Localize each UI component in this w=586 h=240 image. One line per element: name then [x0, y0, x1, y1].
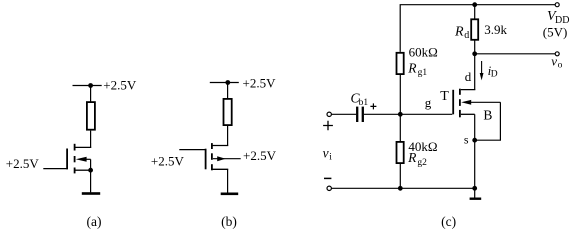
wire: VDD top rail (c) [400, 5, 555, 52]
current arrow iD [481, 61, 483, 74]
node: supply junction (b) [225, 80, 230, 85]
wire: resistor to drain (a) [90, 131, 92, 148]
wire: body loop to source node B [475, 102, 501, 140]
wire: input to capacitor [331, 113, 356, 115]
wire: source to ground (b) [227, 169, 229, 192]
svg-text:+2.5V: +2.5V [243, 75, 277, 90]
transistor T body arrow [461, 100, 471, 105]
wire: drain node to transistor [474, 54, 476, 90]
svg-text:(a): (a) [87, 214, 102, 229]
resistor Rd [471, 19, 478, 40]
svg-text:g: g [425, 95, 432, 110]
transistor (a) NMOS drain stub [75, 146, 90, 149]
resistor (a) drain resistor [87, 102, 95, 130]
transistor T source stub [461, 113, 475, 115]
resistor Rg2 [397, 142, 404, 163]
node: source ground junction [472, 186, 477, 191]
terminal input - [327, 186, 331, 190]
svg-text:i: i [329, 152, 332, 162]
svg-text:d: d [465, 69, 472, 84]
transistor (b) body arrow [213, 158, 241, 160]
wire: Rg2 to bottom rail [399, 163, 401, 188]
svg-text:R: R [454, 25, 464, 40]
wire: Rg1 to gate node to Rg2 [399, 75, 401, 142]
wire: Rd to drain node [474, 40, 476, 54]
svg-text:T: T [440, 89, 449, 104]
wire: source to bottom rail [474, 114, 476, 188]
wire: resistor to drain (b) [227, 126, 229, 146]
node: Rg2 bottom junction [398, 186, 403, 191]
node: supply junction (a) [88, 83, 93, 88]
svg-text:v: v [551, 53, 557, 68]
transistor (b) source stub [212, 168, 228, 171]
ground (c) [470, 198, 482, 200]
node: drain output junction [472, 51, 477, 56]
svg-text:B: B [483, 107, 492, 122]
terminal input + [327, 112, 331, 116]
wire: body to source (a) [90, 159, 92, 170]
wire: gate lead (b) [179, 149, 205, 151]
node: body-source junction [472, 138, 477, 143]
wire: capacitor to gate [364, 113, 452, 115]
transistor (a) gate bar [66, 149, 68, 170]
ground (a) [82, 192, 100, 195]
wire: rail to Rd [474, 5, 476, 19]
ground (b) [221, 193, 239, 196]
svg-text:+2.5V: +2.5V [243, 148, 277, 163]
transistor T drain stub [461, 89, 475, 92]
svg-text:d: d [464, 30, 469, 41]
svg-text:(c): (c) [441, 214, 456, 229]
label - input [324, 177, 331, 179]
svg-text:g1: g1 [418, 68, 428, 78]
label + input [323, 121, 333, 131]
wire: top rail (a) [73, 85, 102, 87]
wire: bottom rail (c) [331, 187, 474, 189]
svg-text:(5V): (5V) [543, 25, 568, 40]
transistor (a) source stub [75, 169, 90, 171]
transistor (b) channel bar [211, 143, 213, 170]
resistor (b) drain resistor [224, 99, 232, 125]
transistor T channel bar [459, 89, 461, 118]
node: top rail junction at Rd [472, 2, 477, 7]
svg-text:3.9k: 3.9k [484, 22, 507, 37]
node: source junction (a) [88, 168, 93, 173]
svg-text:60kΩ: 60kΩ [409, 44, 438, 59]
wire: gate lead (a) [43, 168, 66, 170]
wire: supply to resistor (a) [90, 86, 92, 102]
transistor (a) channel bar [74, 144, 76, 174]
wire: supply to resistor (b) [227, 83, 229, 99]
svg-text:+2.5V: +2.5V [103, 77, 137, 92]
terminal VDD [555, 3, 559, 7]
svg-text:+2.5V: +2.5V [151, 153, 185, 168]
wire: output rail vo [475, 53, 556, 55]
svg-text:+2.5V: +2.5V [6, 156, 40, 171]
wire: top rail (b) [210, 82, 239, 84]
transistor (b) gate bar [205, 149, 207, 170]
svg-text:g2: g2 [417, 158, 427, 168]
svg-text:R: R [407, 60, 417, 75]
transistor T gate bar [452, 90, 454, 115]
terminal vo [555, 52, 559, 56]
wire: ground stub (c) [474, 188, 476, 197]
resistor Rg1 [397, 53, 404, 74]
wire: source to ground (a) [90, 170, 92, 192]
svg-text:D: D [491, 70, 498, 80]
transistor (b) PMOS drain stub [212, 145, 228, 148]
node: gate bias junction [398, 112, 403, 117]
svg-text:b1: b1 [359, 98, 369, 108]
capacitor Cb1 [356, 107, 358, 122]
label + capacitor polarity [370, 103, 376, 109]
transistor (a) body arrow [76, 157, 87, 162]
svg-text:v: v [323, 145, 329, 160]
svg-text:(b): (b) [221, 214, 237, 229]
svg-text:R: R [407, 150, 417, 165]
svg-text:o: o [558, 60, 563, 70]
svg-text:s: s [464, 133, 469, 147]
